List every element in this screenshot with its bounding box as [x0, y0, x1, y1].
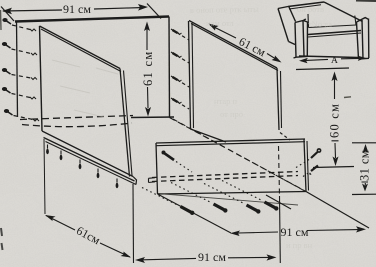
arrowhead down-right: [272, 56, 282, 63]
leader diagonal from front panel corner: [158, 194, 232, 233]
panel2 right edge outer: [277, 68, 279, 130]
left arrowhead: [230, 231, 240, 237]
box front wall top thickness: [308, 33, 361, 37]
second short diagonal: [266, 195, 291, 209]
upper segment: [146, 29, 148, 50]
box right wall top edge: [324, 2, 363, 22]
screw B2: [60, 151, 63, 161]
box left wall bottom edge: [289, 42, 296, 45]
screw F3: [204, 184, 260, 214]
screw B1: [46, 145, 49, 155]
dim line left segment: [3, 10, 62, 11]
panel left edge: [40, 26, 43, 131]
panel2 bottom edge: [191, 129, 227, 142]
small dash artifact: [344, 96, 351, 99]
60 bottom tick line: [313, 167, 354, 168]
60 up arrowhead: [332, 72, 338, 82]
floor diagonal hidden part: [170, 118, 307, 192]
hidden rail behind front panel (dashed pair): [152, 172, 298, 178]
panel top edge outer: [40, 26, 121, 69]
bottom-left corner marks: [1, 228, 3, 250]
60 upper segment: [334, 79, 336, 99]
front panel top edge inner: [156, 142, 305, 146]
panel right edge inner: [124, 71, 133, 176]
box front wall top edge: [308, 31, 361, 35]
31 bottom tick line: [352, 193, 376, 195]
panel top edge inner: [41, 29, 121, 72]
left arrowhead: [135, 257, 145, 263]
svg-text:А: А: [331, 56, 338, 66]
faint long crease line: [158, 194, 298, 206]
down-right arrowhead: [121, 252, 132, 258]
dim line left segment: [143, 258, 196, 259]
screw FR1: [296, 148, 321, 167]
31 up arrowhead: [363, 144, 369, 153]
screw R-edge 4: [171, 98, 189, 109]
down arrowhead: [145, 107, 151, 117]
screw FR2: [303, 166, 318, 177]
svg-text:от про: от про: [220, 109, 243, 119]
dim line upper: [210, 25, 236, 38]
extension line (x=44): [44, 139, 45, 214]
svg-text:в оноп оте ртк ыты: в оноп оте ртк ыты: [190, 4, 259, 15]
dim line right segment: [307, 229, 358, 232]
dim line right segment: [228, 256, 269, 258]
left slash tick: [1, 7, 14, 22]
A dim line left: [306, 59, 328, 60]
60 down arrowhead: [333, 157, 339, 167]
60 lower segment: [332, 141, 339, 158]
back wall left edge: [17, 22, 18, 118]
back wall top edge: [15, 17, 169, 22]
screw F4: [222, 181, 278, 211]
box left wall top edge: [278, 7, 288, 9]
right arrowhead: [267, 254, 277, 260]
screw R-edge 2: [171, 52, 189, 63]
panel2 right edge inner: [281, 71, 282, 128]
box left wall front edge: [278, 9, 289, 42]
dim line left segment: [238, 232, 278, 233]
box back wall top thickness: [289, 5, 321, 9]
screw B3: [79, 160, 82, 170]
screw F1: [142, 188, 194, 216]
60 top tick line: [296, 68, 349, 70]
box front wall bottom edge: [299, 56, 358, 58]
box left post: [294, 19, 308, 58]
svg-text:91 см: 91 см: [198, 250, 226, 264]
front panel right edge outer: [304, 140, 306, 192]
extension line right (x=277) dashed through panel: [279, 146, 280, 196]
screw B5: [116, 179, 119, 189]
rail mid line: [44, 138, 135, 182]
svg-text:нам отл: нам отл: [206, 18, 234, 28]
box right post: [357, 18, 370, 60]
box inner back-left seam: [307, 14, 310, 28]
dim line: [46, 216, 130, 258]
panel2 bottom right dashes: [280, 133, 290, 141]
A left arrow: [299, 58, 308, 63]
dim line right segment: [94, 8, 144, 10]
front panel top edge outer: [156, 139, 305, 143]
A dim line right: [341, 57, 359, 59]
lower segment: [147, 87, 150, 108]
extension line right solid: [279, 196, 282, 263]
hidden floor line (dashed, lower): [22, 123, 132, 127]
panel right edge outer: [120, 69, 130, 177]
svg-text:и пр вн: и пр вн: [286, 240, 313, 250]
floor diagonal visible part: [306, 192, 369, 229]
front panel right edge inner: [307, 141, 309, 191]
panel2 top edge outer: [189, 21, 277, 69]
svg-text:61 см: 61 см: [141, 50, 155, 86]
svg-text:31 см: 31 см: [358, 150, 372, 181]
box inner floor line: [309, 25, 357, 28]
screw R-edge 1: [171, 29, 189, 40]
arrowhead up-left: [209, 24, 219, 31]
screw L5: [4, 109, 39, 121]
front panel bottom edge: [158, 192, 307, 195]
front panel left edge: [156, 143, 158, 194]
back wall bottom edge (visible part): [131, 116, 174, 119]
up arrowhead: [144, 22, 150, 32]
right arrowhead: [356, 226, 366, 232]
screw F2: [171, 183, 228, 213]
screw R-edge 3: [171, 76, 189, 87]
screw B4: [97, 169, 100, 179]
31 down arrowhead: [362, 184, 368, 192]
screw L4: [2, 87, 36, 99]
31 lower segment: [362, 182, 369, 185]
dim line lower: [267, 54, 279, 62]
right arrowhead: [138, 4, 148, 11]
A right arrow: [358, 56, 367, 61]
screw L1: [2, 18, 36, 31]
rail top line: [42, 131, 133, 177]
back wall bottom edge hidden (dashed): [20, 116, 133, 120]
svg-text:тNo ва: тNo ва: [308, 19, 332, 29]
svg-text:91 см: 91 см: [281, 225, 309, 239]
screw P1 on front panel face: [162, 151, 193, 173]
svg-text:нтар п: нтар п: [214, 96, 238, 106]
top-right edge mark: [356, 0, 376, 2]
svg-text:он ротв: он ротв: [297, 4, 324, 14]
panel2 top edge inner: [191, 24, 278, 71]
back wall right edge: [168, 17, 171, 118]
screw L3: [2, 68, 37, 80]
right slash tick: [147, 4, 161, 19]
left edge smudge: [0, 10, 2, 30]
31 top tick line: [352, 142, 376, 144]
floor diagonal hidden part second line: [173, 119, 308, 193]
screw L2: [2, 42, 37, 55]
svg-text:91 см: 91 см: [63, 2, 91, 16]
box back wall left edge: [289, 7, 296, 22]
hidden rail lower dash: [152, 176, 298, 182]
svg-text:60 см: 60 см: [328, 103, 342, 138]
rail bottom line: [46, 142, 137, 185]
rail end stub: [149, 178, 156, 183]
panel2 left edge inner: [192, 23, 194, 128]
left arrowhead: [2, 8, 12, 15]
faint bleed streaks on left panel: [52, 60, 118, 117]
box inner right seam: [355, 16, 356, 25]
box back wall top edge: [288, 2, 324, 7]
up-left arrowhead: [45, 215, 56, 221]
rail end cap: [133, 177, 137, 185]
extension line left (x=133): [132, 184, 135, 263]
panel2 left edge outer: [189, 21, 191, 129]
